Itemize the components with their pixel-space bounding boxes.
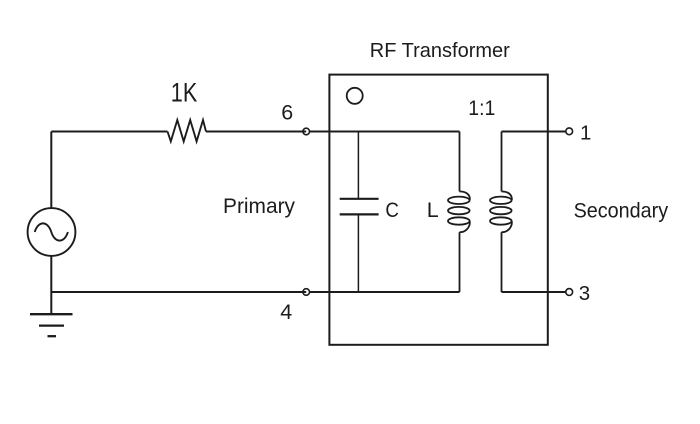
svg-text:Primary: Primary	[223, 195, 295, 218]
svg-text:C: C	[385, 198, 399, 222]
svg-text:L: L	[427, 198, 439, 222]
svg-text:1:1: 1:1	[468, 96, 495, 120]
svg-text:Secondary: Secondary	[574, 200, 669, 223]
svg-text:1K: 1K	[171, 78, 198, 108]
svg-text:3: 3	[579, 282, 590, 305]
svg-text:6: 6	[281, 101, 293, 125]
svg-text:RF Transformer: RF Transformer	[370, 39, 510, 62]
svg-text:4: 4	[280, 300, 292, 324]
svg-text:1: 1	[580, 121, 591, 144]
